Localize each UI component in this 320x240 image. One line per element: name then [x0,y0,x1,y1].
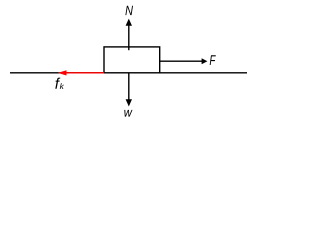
ground surface line [10,72,247,74]
label w [124,110,132,117]
label N [125,6,133,15]
wire w weight line [128,73,130,101]
arrowhead N (up) [126,19,132,26]
wire F applied-force line [160,60,202,62]
wire N normal-force line [128,25,130,51]
arrowhead friction fk (left, red) [58,70,67,75]
label f [55,78,60,89]
label k subscript [60,83,64,89]
label F [210,55,216,65]
arrowhead w (down) [126,99,132,106]
wire friction-force line (red) [66,72,104,74]
arrowhead F (right) [202,58,208,64]
block (box resting on surface) [104,47,160,73]
